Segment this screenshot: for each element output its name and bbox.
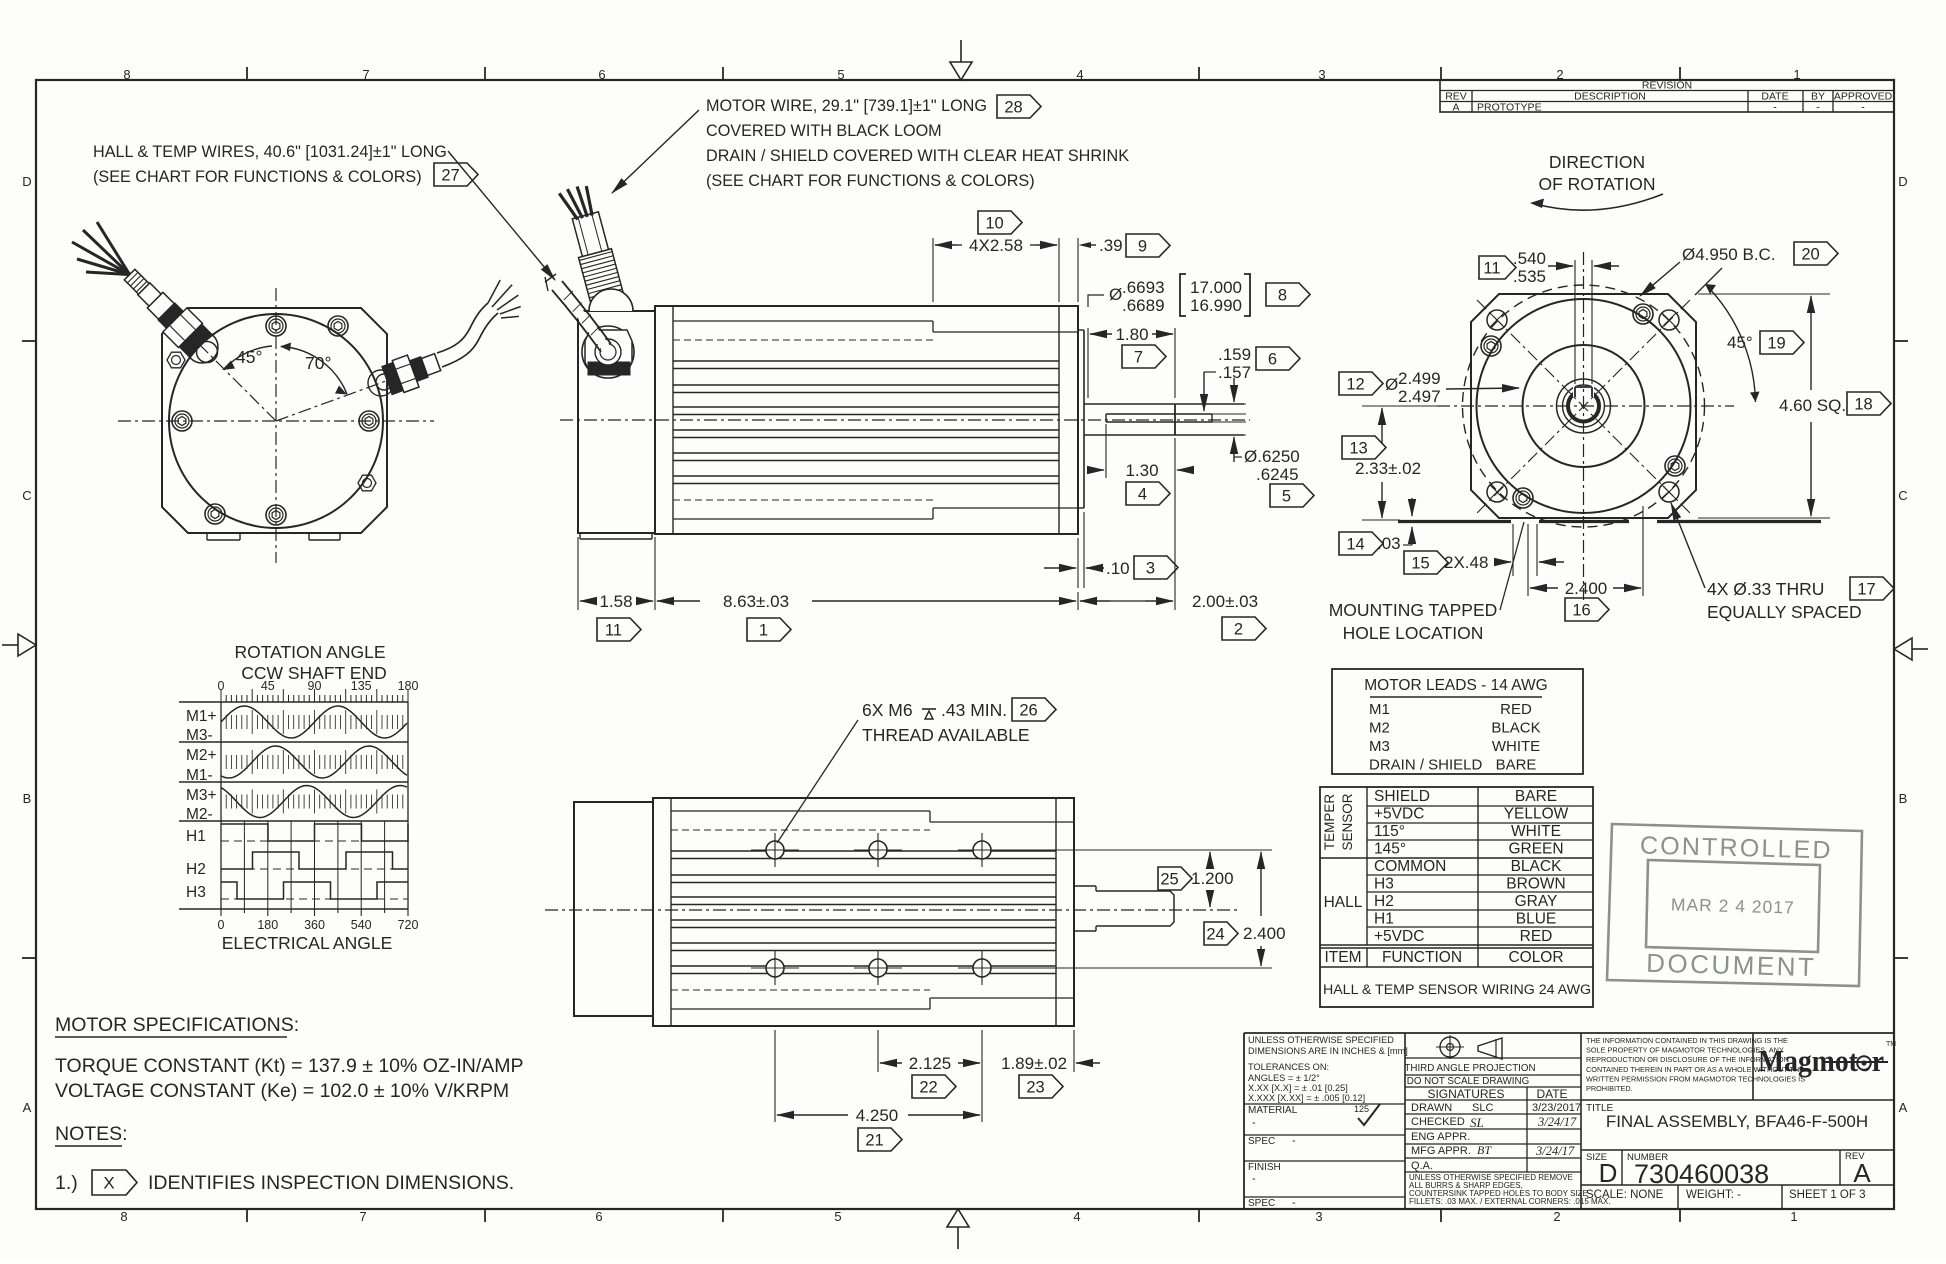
svg-text:1.): 1.) — [55, 1172, 78, 1194]
svg-text:-: - — [1292, 1135, 1296, 1147]
svg-text:21: 21 — [865, 1131, 883, 1149]
svg-text:8: 8 — [120, 1209, 127, 1224]
svg-text:-: - — [1773, 102, 1777, 114]
svg-text:MAR 2 4 2017: MAR 2 4 2017 — [1671, 894, 1795, 917]
svg-text:M1: M1 — [1369, 701, 1390, 718]
svg-text:17.000: 17.000 — [1190, 278, 1242, 297]
svg-text:SCALE: NONE: SCALE: NONE — [1586, 1189, 1664, 1201]
svg-text:8: 8 — [1278, 286, 1287, 304]
svg-text:45°: 45° — [1727, 333, 1753, 352]
svg-text:6: 6 — [598, 67, 605, 82]
svg-text:27: 27 — [441, 166, 459, 184]
svg-text:NOTES:: NOTES: — [55, 1123, 128, 1145]
svg-text:70°: 70° — [305, 353, 331, 373]
svg-text:1.89±.02: 1.89±.02 — [1001, 1054, 1067, 1073]
svg-text:8.63±.03: 8.63±.03 — [723, 592, 789, 611]
svg-text:-: - — [1292, 1197, 1296, 1209]
svg-text:UNLESS OTHERWISE SPECIFIED: UNLESS OTHERWISE SPECIFIED — [1248, 1035, 1394, 1045]
svg-text:X: X — [103, 1174, 114, 1193]
svg-text:720: 720 — [398, 918, 419, 932]
svg-text:SOLE PROPERTY OF MAGMOTOR TECH: SOLE PROPERTY OF MAGMOTOR TECHNOLOGIES. … — [1586, 1046, 1784, 1055]
svg-text:BARE: BARE — [1515, 788, 1557, 805]
svg-text:DIMENSIONS ARE IN INCHES & [mm: DIMENSIONS ARE IN INCHES & [mm] — [1248, 1046, 1408, 1056]
svg-text:DATE: DATE — [1761, 90, 1788, 102]
svg-text:APPROVED: APPROVED — [1834, 90, 1893, 102]
svg-text:PROHIBITED.: PROHIBITED. — [1586, 1084, 1633, 1093]
svg-text:D: D — [22, 174, 31, 189]
svg-text:A: A — [1452, 101, 1459, 113]
svg-text:H3: H3 — [1374, 876, 1394, 893]
svg-text:.535: .535 — [1513, 267, 1546, 286]
svg-text:YELLOW: YELLOW — [1504, 806, 1569, 823]
svg-text:H1: H1 — [1374, 911, 1394, 928]
svg-text:H2: H2 — [186, 861, 206, 878]
svg-text:M3-: M3- — [186, 727, 213, 744]
svg-text:2.499: 2.499 — [1398, 369, 1441, 388]
svg-text:2.33±.02: 2.33±.02 — [1355, 459, 1421, 478]
svg-text:5: 5 — [1282, 487, 1291, 505]
svg-text:BLACK: BLACK — [1511, 858, 1562, 875]
svg-text:Ø4.950 B.C.: Ø4.950 B.C. — [1682, 245, 1776, 264]
svg-text:730460038: 730460038 — [1634, 1159, 1769, 1189]
svg-text:A: A — [1853, 1158, 1871, 1188]
svg-text:MFG APPR.: MFG APPR. — [1411, 1145, 1471, 1157]
svg-text:145°: 145° — [1374, 841, 1406, 858]
svg-text:THREAD AVAILABLE: THREAD AVAILABLE — [862, 725, 1030, 745]
svg-text:SHEET 1 OF 3: SHEET 1 OF 3 — [1789, 1189, 1865, 1201]
svg-text:4: 4 — [1138, 485, 1147, 503]
svg-text:SPEC: SPEC — [1248, 1136, 1275, 1147]
svg-text:11: 11 — [1483, 259, 1500, 277]
svg-text:GRAY: GRAY — [1515, 893, 1558, 910]
svg-text:7: 7 — [1134, 348, 1143, 366]
svg-text:ELECTRICAL ANGLE: ELECTRICAL ANGLE — [222, 933, 393, 953]
svg-text:D: D — [1898, 174, 1907, 189]
svg-text:HALL & TEMP SENSOR WIRING 24 A: HALL & TEMP SENSOR WIRING 24 AWG — [1323, 982, 1591, 998]
svg-text:HALL: HALL — [1324, 894, 1363, 911]
svg-text:ROTATION ANGLE: ROTATION ANGLE — [234, 642, 385, 662]
svg-text:.39: .39 — [1099, 236, 1123, 255]
svg-text:MOTOR WIRE, 29.1" [739.1]±1" L: MOTOR WIRE, 29.1" [739.1]±1" LONG — [706, 97, 987, 115]
svg-text:M1+: M1+ — [186, 708, 217, 725]
svg-text:BT: BT — [1477, 1143, 1492, 1157]
svg-text:.540: .540 — [1513, 249, 1546, 268]
svg-text:1.30: 1.30 — [1125, 461, 1158, 480]
svg-text:Ø: Ø — [1109, 285, 1122, 304]
svg-text:+5VDC: +5VDC — [1374, 928, 1424, 945]
svg-text:DESCRIPTION: DESCRIPTION — [1574, 90, 1646, 102]
svg-text:5: 5 — [837, 67, 844, 82]
svg-text:125: 125 — [1354, 1104, 1369, 1114]
svg-text:WEIGHT: -: WEIGHT: - — [1686, 1189, 1741, 1201]
svg-text:HALL & TEMP WIRES, 40.6" [1031: HALL & TEMP WIRES, 40.6" [1031.24]±1" LO… — [93, 143, 447, 161]
svg-text:Ø: Ø — [1385, 375, 1398, 394]
svg-text:M3+: M3+ — [186, 787, 217, 804]
svg-text:10: 10 — [985, 214, 1003, 232]
svg-text:4.60 SQ.: 4.60 SQ. — [1779, 396, 1846, 415]
svg-text:SENSOR: SENSOR — [1340, 793, 1355, 850]
svg-text:2X.48: 2X.48 — [1444, 553, 1488, 572]
svg-text:3: 3 — [1315, 1209, 1322, 1224]
svg-text:6: 6 — [595, 1209, 602, 1224]
svg-text:DO NOT SCALE DRAWING: DO NOT SCALE DRAWING — [1407, 1076, 1529, 1087]
svg-text:COLOR: COLOR — [1508, 949, 1563, 966]
svg-text:5: 5 — [834, 1209, 841, 1224]
svg-text:X.XXX [X.XX] = ± .005 [0.12]: X.XXX [X.XX] = ± .005 [0.12] — [1248, 1093, 1365, 1103]
svg-text:.43 MIN.: .43 MIN. — [941, 700, 1007, 720]
svg-text:3: 3 — [1146, 559, 1155, 577]
svg-text:2.00±.03: 2.00±.03 — [1192, 592, 1258, 611]
svg-text:4X2.58: 4X2.58 — [969, 236, 1023, 255]
svg-text:4.250: 4.250 — [856, 1106, 899, 1125]
svg-text:11: 11 — [605, 621, 622, 639]
svg-text:BARE: BARE — [1496, 757, 1537, 774]
svg-text:H1: H1 — [186, 828, 206, 845]
svg-text:+5VDC: +5VDC — [1374, 806, 1424, 823]
svg-text:TEMPER: TEMPER — [1322, 794, 1337, 851]
svg-text:6: 6 — [1268, 350, 1277, 368]
svg-text:RED: RED — [1520, 928, 1553, 945]
svg-text:15: 15 — [1411, 554, 1429, 572]
svg-text:7: 7 — [359, 1209, 366, 1224]
svg-text:135: 135 — [351, 679, 372, 693]
svg-text:FINISH: FINISH — [1248, 1162, 1281, 1173]
svg-text:MOUNTING TAPPED: MOUNTING TAPPED — [1329, 600, 1498, 620]
svg-text:VOLTAGE CONSTANT (Ke) = 102.0: VOLTAGE CONSTANT (Ke) = 102.0 ± 10% V/KR… — [55, 1080, 509, 1102]
svg-text:8: 8 — [123, 67, 130, 82]
svg-text:BY: BY — [1811, 90, 1825, 102]
svg-text:ANGLES = ± 1/2°: ANGLES = ± 1/2° — [1248, 1073, 1320, 1083]
svg-text:OF ROTATION: OF ROTATION — [1539, 174, 1656, 194]
svg-text:540: 540 — [351, 918, 372, 932]
svg-text:1.58: 1.58 — [599, 592, 632, 611]
svg-text:3/24/17: 3/24/17 — [1535, 1144, 1575, 1158]
svg-text:13: 13 — [1349, 439, 1367, 457]
svg-text:A: A — [1899, 1100, 1908, 1115]
svg-text:M3: M3 — [1369, 738, 1390, 755]
svg-text:20: 20 — [1801, 245, 1819, 263]
svg-text:SPEC: SPEC — [1248, 1198, 1275, 1209]
svg-text:25: 25 — [1160, 870, 1178, 888]
svg-text:EQUALLY SPACED: EQUALLY SPACED — [1707, 602, 1862, 622]
svg-text:(SEE CHART FOR FUNCTIONS & COL: (SEE CHART FOR FUNCTIONS & COLORS) — [706, 172, 1035, 190]
svg-text:.6693: .6693 — [1122, 278, 1165, 297]
svg-text:1: 1 — [1790, 1209, 1797, 1224]
svg-text:DIRECTION: DIRECTION — [1549, 152, 1645, 172]
svg-text:115°: 115° — [1374, 823, 1405, 840]
svg-text:23: 23 — [1026, 1078, 1044, 1096]
svg-text:A: A — [23, 1100, 32, 1115]
svg-text:DRAIN / SHIELD: DRAIN / SHIELD — [1369, 757, 1483, 774]
svg-text:BLUE: BLUE — [1516, 911, 1557, 928]
svg-text:45: 45 — [261, 679, 275, 693]
svg-text:TORQUE CONSTANT (Kt) = 137.9: TORQUE CONSTANT (Kt) = 137.9 ± 10% OZ-IN… — [55, 1055, 524, 1077]
svg-text:28: 28 — [1004, 98, 1022, 116]
svg-text:3: 3 — [1318, 67, 1325, 82]
svg-text:COVERED WITH BLACK LOOM: COVERED WITH BLACK LOOM — [706, 122, 942, 140]
svg-text:1.200: 1.200 — [1191, 869, 1234, 888]
svg-text:24: 24 — [1206, 925, 1224, 943]
svg-text:ITEM: ITEM — [1324, 949, 1361, 966]
svg-text:B: B — [23, 791, 32, 806]
svg-text:MATERIAL: MATERIAL — [1248, 1105, 1298, 1116]
svg-text:M2+: M2+ — [186, 747, 217, 764]
svg-text:M2-: M2- — [186, 806, 213, 823]
svg-text:DATE: DATE — [1536, 1087, 1567, 1101]
svg-text:4: 4 — [1073, 1209, 1080, 1224]
svg-text:22: 22 — [919, 1078, 937, 1096]
svg-text:GREEN: GREEN — [1508, 841, 1563, 858]
svg-text:SL: SL — [1470, 1115, 1484, 1130]
svg-text:B: B — [1899, 791, 1908, 806]
svg-text:.10: .10 — [1106, 559, 1130, 578]
svg-text:COMMON: COMMON — [1374, 858, 1446, 875]
svg-text:3/23/2017: 3/23/2017 — [1532, 1102, 1581, 1114]
svg-text:C: C — [1898, 488, 1907, 503]
svg-text:SIGNATURES: SIGNATURES — [1427, 1087, 1504, 1101]
svg-text:IDENTIFIES INSPECTION DIMENSIO: IDENTIFIES INSPECTION DIMENSIONS. — [148, 1172, 514, 1194]
svg-text:14: 14 — [1346, 535, 1364, 553]
svg-text:BROWN: BROWN — [1506, 876, 1565, 893]
svg-text:-: - — [1252, 1173, 1256, 1185]
svg-text:4X Ø.33 THRU: 4X Ø.33 THRU — [1707, 579, 1824, 599]
svg-text:Q.A.: Q.A. — [1411, 1160, 1433, 1172]
svg-text:16.990: 16.990 — [1190, 296, 1242, 315]
svg-text:2.497: 2.497 — [1398, 387, 1441, 406]
svg-text:2.125: 2.125 — [909, 1054, 952, 1073]
svg-text:4: 4 — [1076, 67, 1083, 82]
svg-text:18: 18 — [1854, 395, 1872, 413]
svg-text:Ø.6250: Ø.6250 — [1244, 447, 1300, 466]
svg-text:17: 17 — [1857, 580, 1875, 598]
svg-text:DRAIN / SHIELD COVERED WITH CL: DRAIN / SHIELD COVERED WITH CLEAR HEAT S… — [706, 147, 1129, 165]
svg-text:THIRD ANGLE PROJECTION: THIRD ANGLE PROJECTION — [1404, 1063, 1535, 1074]
svg-text:6X M6: 6X M6 — [862, 700, 913, 720]
svg-text:2: 2 — [1234, 620, 1243, 638]
svg-text:.6245: .6245 — [1256, 465, 1299, 484]
svg-text:FILLETS: .03 MAX. / EXTERNAL C: FILLETS: .03 MAX. / EXTERNAL CORNERS: .0… — [1409, 1197, 1611, 1206]
svg-text:2: 2 — [1553, 1209, 1560, 1224]
svg-text:M2: M2 — [1369, 720, 1390, 737]
svg-text:1: 1 — [759, 621, 768, 639]
svg-text:.03: .03 — [1377, 534, 1401, 553]
svg-text:TOLERANCES ON:: TOLERANCES ON: — [1248, 1062, 1329, 1072]
svg-text:H2: H2 — [1374, 893, 1394, 910]
svg-text:-: - — [1861, 102, 1865, 114]
svg-text:WHITE: WHITE — [1511, 823, 1561, 840]
svg-text:BLACK: BLACK — [1491, 720, 1540, 737]
svg-text:CHECKED: CHECKED — [1411, 1116, 1465, 1128]
svg-text:H3: H3 — [186, 884, 206, 901]
svg-text:MOTOR SPECIFICATIONS:: MOTOR SPECIFICATIONS: — [55, 1014, 299, 1036]
svg-text:D: D — [1599, 1158, 1618, 1188]
svg-text:HOLE LOCATION: HOLE LOCATION — [1343, 623, 1484, 643]
svg-text:RED: RED — [1500, 701, 1532, 718]
svg-text:TM: TM — [1886, 1041, 1896, 1048]
svg-text:12: 12 — [1346, 375, 1364, 393]
svg-text:FINAL ASSEMBLY, BFA46-F-500H: FINAL ASSEMBLY, BFA46-F-500H — [1606, 1112, 1868, 1131]
svg-text:SLC: SLC — [1472, 1102, 1493, 1114]
svg-text:19: 19 — [1767, 334, 1785, 352]
svg-text:9: 9 — [1138, 237, 1147, 255]
svg-text:0: 0 — [218, 918, 225, 932]
svg-text:45°: 45° — [236, 347, 262, 367]
svg-text:2.400: 2.400 — [1243, 924, 1286, 943]
svg-text:180: 180 — [257, 918, 278, 932]
svg-text:16: 16 — [1572, 601, 1590, 619]
svg-text:-: - — [1816, 102, 1820, 114]
svg-text:FUNCTION: FUNCTION — [1382, 949, 1462, 966]
svg-text:3/24/17: 3/24/17 — [1537, 1115, 1577, 1129]
svg-text:DRAWN: DRAWN — [1411, 1102, 1452, 1114]
svg-text:-: - — [1252, 1117, 1256, 1129]
svg-text:X.XX [X.X] = ± .01 [0.25]: X.XX [X.X] = ± .01 [0.25] — [1248, 1083, 1348, 1093]
svg-text:7: 7 — [362, 67, 369, 82]
svg-text:1.80: 1.80 — [1115, 325, 1148, 344]
svg-text:(SEE CHART FOR FUNCTIONS & COL: (SEE CHART FOR FUNCTIONS & COLORS) — [93, 168, 422, 186]
svg-text:M1-: M1- — [186, 767, 213, 784]
svg-text:WHITE: WHITE — [1492, 738, 1540, 755]
svg-text:26: 26 — [1019, 701, 1037, 719]
svg-text:.6689: .6689 — [1122, 296, 1165, 315]
svg-text:SHIELD: SHIELD — [1374, 788, 1430, 805]
svg-text:C: C — [22, 488, 31, 503]
svg-text:CONTROLLED: CONTROLLED — [1640, 831, 1834, 864]
svg-text:ENG APPR.: ENG APPR. — [1411, 1131, 1470, 1143]
svg-text:DOCUMENT: DOCUMENT — [1646, 948, 1817, 982]
svg-text:2.400: 2.400 — [1565, 579, 1608, 598]
svg-text:PROTOTYPE: PROTOTYPE — [1477, 101, 1542, 113]
svg-text:MOTOR LEADS - 14 AWG: MOTOR LEADS - 14 AWG — [1364, 677, 1547, 694]
svg-text:.159: .159 — [1218, 345, 1251, 364]
svg-text:360: 360 — [304, 918, 325, 932]
svg-text:REVISION: REVISION — [1642, 80, 1692, 92]
